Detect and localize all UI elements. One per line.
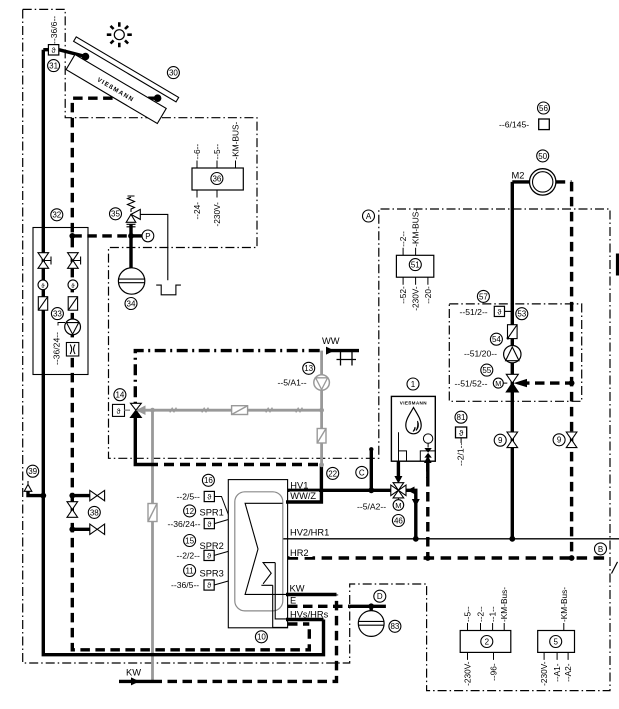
svg-text:--36/24--: --36/24-- bbox=[168, 519, 201, 529]
check valve 54 bbox=[507, 325, 517, 340]
WW outlet arrow bbox=[326, 347, 335, 355]
svg-text:-230V-: -230V- bbox=[411, 286, 421, 311]
sensor 12 SPR1 bbox=[204, 519, 228, 529]
node C stub top cap bbox=[369, 447, 373, 451]
wire gray cold water riser down to KW bbox=[151, 410, 154, 681]
funnel drain bbox=[156, 285, 181, 295]
sun symbol bbox=[107, 22, 132, 47]
air vent 39 bbox=[24, 481, 32, 491]
svg-text:P: P bbox=[145, 232, 150, 241]
wire KW bottom line arrow part bbox=[119, 680, 153, 683]
mixing valve 14 thermostatic bbox=[113, 403, 146, 417]
svg-text:10: 10 bbox=[257, 633, 266, 642]
svg-text:WW: WW bbox=[322, 336, 340, 346]
svg-text:53: 53 bbox=[517, 310, 526, 319]
node mixer to HV2/HR1 bbox=[413, 536, 419, 542]
label circle 33 bbox=[51, 308, 63, 320]
safety valve 35 bbox=[126, 196, 140, 227]
control box 57 dash-dot frame bbox=[449, 304, 581, 401]
svg-text:M: M bbox=[395, 501, 401, 510]
wire M2 return dashed riser bbox=[556, 182, 572, 558]
svg-text:50: 50 bbox=[538, 152, 547, 161]
svg-text:14: 14 bbox=[115, 391, 124, 400]
node boiler return to HR2 bbox=[425, 555, 431, 561]
svg-text:11: 11 bbox=[185, 566, 194, 575]
svg-text:--36/5--: --36/5-- bbox=[171, 580, 199, 590]
thermometer right bbox=[68, 280, 78, 290]
label circle 36 bbox=[211, 173, 223, 185]
wire HRs dashed tank stub bbox=[288, 622, 309, 625]
label HR2 bbox=[290, 548, 313, 558]
label circle 10 bbox=[255, 631, 267, 643]
svg-text:38: 38 bbox=[90, 508, 99, 517]
wire mixer 46 outlet to HV2/HR1 bbox=[406, 490, 416, 539]
mixer 46 three-way bbox=[391, 483, 415, 511]
flow meter (solar station) bbox=[66, 343, 78, 357]
svg-text:D: D bbox=[377, 592, 383, 601]
gray check valve on WW/Z riser bbox=[317, 429, 326, 444]
svg-text:-KM-Bus-: -KM-Bus- bbox=[559, 587, 569, 622]
thermometer left bbox=[38, 280, 48, 290]
node gray riser end bbox=[319, 462, 324, 467]
label circle 15 bbox=[184, 535, 196, 547]
label circle B bbox=[595, 543, 607, 555]
label WW/Z bbox=[290, 491, 320, 501]
valve 9 return bbox=[566, 432, 577, 448]
sensor 56 outdoor bbox=[539, 119, 550, 130]
svg-text:15: 15 bbox=[185, 536, 194, 545]
wire E/D solid segment with vessel 83 tap bbox=[350, 605, 386, 608]
wire KW tank stub bbox=[286, 593, 337, 596]
controller box 51 bbox=[396, 209, 433, 311]
label circle 83 bbox=[389, 620, 401, 632]
svg-text:--2/5--: --2/5-- bbox=[177, 491, 201, 501]
label circle 57 bbox=[477, 290, 489, 302]
label circle 14 bbox=[114, 389, 126, 401]
label circle 11 bbox=[184, 565, 196, 577]
svg-text:5: 5 bbox=[553, 637, 558, 646]
svg-text:--2/2--: --2/2-- bbox=[177, 550, 201, 560]
label circle 50 bbox=[537, 150, 549, 162]
svg-text:39: 39 bbox=[28, 467, 37, 476]
valve shutoff left (solar station) bbox=[38, 253, 51, 269]
wire boiler flow arrow shaft bbox=[397, 461, 400, 477]
label circle 34 bbox=[125, 298, 137, 310]
svg-text:55: 55 bbox=[482, 366, 491, 375]
wire WW/Z riser black part bbox=[286, 466, 321, 503]
wire M2 supply riser bbox=[512, 182, 530, 539]
boiler 1 bbox=[391, 396, 435, 461]
svg-text:--36/6--: --36/6-- bbox=[49, 16, 59, 44]
svg-text:--6/145-: --6/145- bbox=[499, 120, 529, 130]
label circle 53 bbox=[516, 308, 528, 320]
node junction safety group bbox=[128, 233, 134, 239]
svg-text:--51/20--: --51/20-- bbox=[464, 349, 497, 359]
mixer outlet arrow down bbox=[412, 499, 420, 507]
gray pipe break marks bbox=[170, 408, 303, 413]
solar station box 32 bbox=[33, 228, 88, 375]
wire WW circulation loop thick dash-dot bbox=[135, 351, 319, 403]
svg-text:--36/24--: --36/24-- bbox=[52, 332, 62, 365]
node gray junction bbox=[150, 408, 155, 413]
heating circuit M2 bbox=[530, 169, 556, 195]
valve 38 shut-off on return bbox=[67, 502, 78, 518]
svg-text:56: 56 bbox=[539, 104, 548, 113]
tank electric heater bbox=[261, 563, 275, 586]
svg-text:A: A bbox=[366, 212, 372, 221]
node gray WWZ junction bbox=[319, 408, 324, 413]
tap comb symbol bbox=[337, 351, 357, 366]
label circle C bbox=[356, 466, 368, 478]
wire HV1 boiler flow line bbox=[288, 489, 391, 492]
label circle 55 bbox=[481, 364, 493, 376]
drain valve bottom bbox=[90, 524, 105, 534]
svg-text:1: 1 bbox=[411, 380, 416, 389]
label circle A bbox=[363, 210, 375, 222]
node drain bottom junction bbox=[69, 526, 75, 532]
svg-text:M: M bbox=[495, 379, 501, 388]
svg-text:B: B bbox=[598, 545, 603, 554]
svg-text:51: 51 bbox=[411, 261, 420, 270]
label circle 1 bbox=[407, 378, 419, 390]
wire mixed water outlet solid below valve 14 bbox=[135, 416, 148, 465]
drain valve top bbox=[90, 490, 105, 500]
label circle 39 bbox=[27, 465, 39, 477]
svg-text:HR2: HR2 bbox=[290, 548, 309, 558]
svg-text:--52-: --52- bbox=[398, 286, 408, 304]
svg-text:--51/2--: --51/2-- bbox=[460, 307, 488, 317]
sensor 53 supply bbox=[494, 306, 504, 316]
svg-text:32: 32 bbox=[52, 211, 61, 220]
svg-text:SPR2: SPR2 bbox=[200, 541, 224, 551]
svg-text:KW: KW bbox=[290, 584, 305, 594]
expansion vessel 83 bbox=[358, 611, 384, 637]
label circle 16 bbox=[202, 474, 214, 486]
wire boiler return dashed riser bbox=[426, 462, 429, 558]
wire KW bottom dashed line bbox=[153, 595, 337, 682]
label circle 12 bbox=[184, 505, 196, 517]
svg-text:12: 12 bbox=[185, 507, 194, 516]
svg-text:9: 9 bbox=[498, 436, 503, 445]
label circle 9 right bbox=[553, 434, 565, 446]
node vent junction bbox=[40, 493, 46, 499]
wire gray horizontal to mixing valve 14 bbox=[137, 409, 322, 412]
svg-text:HV1: HV1 bbox=[290, 480, 308, 490]
svg-text:--51/52--: --51/52-- bbox=[455, 378, 488, 388]
svg-text:13: 13 bbox=[304, 364, 313, 373]
wire HR2 dashed line bbox=[288, 556, 608, 559]
svg-text:M2: M2 bbox=[512, 171, 525, 181]
sensor 16 bbox=[204, 491, 228, 514]
svg-text:--6--: --6-- bbox=[192, 144, 202, 160]
controller box 5 bbox=[538, 587, 575, 686]
svg-text:E: E bbox=[290, 596, 296, 606]
wire edge connection mark right bbox=[616, 254, 619, 276]
pump 13 circulation gray bbox=[314, 375, 330, 391]
svg-text:-230V-: -230V- bbox=[539, 661, 549, 686]
wire mixed water dashed line to WW/Z riser bbox=[148, 463, 320, 466]
svg-text:SPR1: SPR1 bbox=[200, 508, 224, 518]
wire mixer 55 bypass dashed branch bbox=[520, 381, 572, 384]
label circle 31 bbox=[48, 60, 60, 72]
svg-text:35: 35 bbox=[111, 210, 120, 219]
svg-text:--1--: --1-- bbox=[488, 606, 498, 622]
wire air vent stub 39 bbox=[28, 487, 43, 496]
svg-text:46: 46 bbox=[394, 516, 403, 525]
svg-text:34: 34 bbox=[127, 299, 136, 308]
label circle 32 bbox=[51, 209, 63, 221]
label circle 9 left bbox=[494, 434, 506, 446]
svg-text:57: 57 bbox=[479, 292, 488, 301]
svg-text:C: C bbox=[359, 468, 365, 477]
label circle 13 bbox=[303, 362, 315, 374]
electrical boxes bbox=[192, 121, 575, 685]
sensor 11 SPR3 bbox=[204, 580, 228, 590]
node collector return connection bbox=[154, 94, 162, 102]
gray check valve on mixed line bbox=[232, 406, 248, 415]
pump 51/20 heating bbox=[504, 346, 521, 363]
svg-text:54: 54 bbox=[492, 335, 501, 344]
pump 33 solar circulation bbox=[65, 319, 81, 335]
wire thin discharge line valve 35 to funnel bbox=[140, 214, 168, 280]
node HV1/C junction bbox=[368, 487, 374, 493]
wire stub to gauge P bbox=[131, 234, 142, 237]
svg-text:--A1-: --A1- bbox=[552, 663, 562, 682]
svg-text:22: 22 bbox=[328, 469, 337, 478]
node M2 supply to HV2/HR1 bbox=[509, 536, 515, 542]
wire gray tap riser: pump 13 down to WW/Z junction bbox=[320, 390, 323, 465]
label circle 81 bbox=[455, 411, 467, 423]
svg-text:-KM-BUS-: -KM-BUS- bbox=[231, 121, 241, 159]
label circle 54 bbox=[490, 333, 502, 345]
sensor 81 flue bbox=[456, 427, 467, 443]
wire HV2/HR1 line bbox=[283, 538, 619, 540]
svg-text:31: 31 bbox=[49, 62, 58, 71]
gray check valve on cold riser bbox=[148, 504, 157, 522]
wire gray WW up from pump to outlet bbox=[320, 351, 323, 375]
label circle 35 bbox=[110, 208, 122, 220]
svg-text:-230V-: -230V- bbox=[212, 202, 222, 227]
svg-text:33: 33 bbox=[53, 310, 62, 319]
svg-text:HV2/HR1: HV2/HR1 bbox=[290, 528, 329, 538]
wire E line dashed from tank bbox=[288, 605, 350, 608]
svg-text:--96-: --96- bbox=[489, 663, 499, 681]
svg-text:83: 83 bbox=[390, 622, 399, 631]
svg-text:KW: KW bbox=[126, 668, 141, 678]
node collector flow connection bbox=[82, 53, 90, 61]
boiler flow arrow head bbox=[394, 476, 402, 484]
wire HR2 continuation slash bbox=[612, 562, 618, 574]
wire drain valve stubs 38 bbox=[72, 496, 92, 530]
expansion vessel 34 bbox=[118, 268, 144, 294]
svg-text:ϑ: ϑ bbox=[117, 409, 121, 416]
wire solar flow to collector (slanted) bbox=[59, 50, 86, 57]
valve 9 supply bbox=[507, 432, 518, 448]
svg-text:--20-: --20- bbox=[423, 286, 433, 304]
tank heater tails bbox=[273, 563, 287, 628]
sensor 15 SPR2 bbox=[204, 550, 228, 560]
wire vessel 83 stub bbox=[370, 606, 373, 611]
gauge P bbox=[142, 230, 154, 242]
svg-text:VIEßMANN: VIEßMANN bbox=[400, 401, 427, 406]
svg-text:81: 81 bbox=[457, 413, 466, 422]
svg-text:--24-: --24- bbox=[192, 202, 202, 220]
label circle 46 bbox=[392, 515, 404, 527]
wire sensor 53 stub bbox=[504, 310, 512, 312]
svg-text:WW/Z: WW/Z bbox=[290, 491, 316, 501]
svg-text:--A2-: --A2- bbox=[563, 663, 573, 682]
node drain top junction bbox=[69, 493, 75, 499]
svg-text:--2/1--: --2/1-- bbox=[455, 442, 465, 466]
check valve left bbox=[38, 297, 47, 311]
svg-text:-230V-: -230V- bbox=[463, 661, 473, 686]
svg-text:16: 16 bbox=[204, 476, 213, 485]
KW arrow bbox=[131, 677, 140, 685]
svg-text:9: 9 bbox=[557, 436, 562, 445]
controller box 36 bbox=[192, 121, 243, 226]
tank vessel outline bbox=[235, 492, 283, 611]
label circle 51 bbox=[409, 259, 421, 271]
svg-text:--5--: --5-- bbox=[463, 606, 473, 622]
label circle 5 bbox=[550, 636, 562, 648]
svg-text:SPR3: SPR3 bbox=[200, 569, 224, 579]
valve shutoff right (solar station) bbox=[68, 253, 81, 269]
wire HVs solid tank stub bbox=[286, 618, 324, 621]
sensor 31 collector temperature bbox=[48, 45, 58, 55]
wire solar return dashed from collector bbox=[72, 98, 309, 650]
svg-text:ϑ: ϑ bbox=[459, 429, 464, 438]
wire pressure branch dashed to safety group bbox=[72, 234, 131, 237]
svg-text:-KM-Bus-: -KM-Bus- bbox=[499, 587, 509, 622]
svg-text:36: 36 bbox=[212, 174, 221, 183]
label circle 56 bbox=[538, 102, 550, 114]
check valve right bbox=[68, 297, 77, 311]
svg-text:HVs/HRs: HVs/HRs bbox=[290, 609, 329, 619]
node solar station top junction bbox=[69, 233, 75, 239]
svg-text:--5--: --5-- bbox=[212, 144, 222, 160]
label circle D bbox=[374, 590, 386, 602]
wire safety valve riser bbox=[129, 225, 132, 268]
wire solar flow line from sensor 31 down left side bbox=[43, 50, 323, 655]
wire WW outlet arrow line bbox=[327, 349, 359, 352]
svg-text:--2--: --2-- bbox=[476, 606, 486, 622]
node C stub bbox=[370, 450, 373, 491]
svg-text:-KM-BUS-: -KM-BUS- bbox=[411, 209, 421, 247]
boiler return arrow bbox=[426, 463, 429, 479]
label circle 30 bbox=[167, 67, 179, 79]
label circle 22 bbox=[327, 467, 339, 479]
svg-text:--2--: --2-- bbox=[398, 231, 408, 247]
label circle 38 bbox=[88, 506, 100, 518]
label hook 36/24 bbox=[58, 323, 65, 326]
storage tank box 10 bbox=[228, 480, 287, 628]
node D junction bbox=[368, 603, 374, 609]
label circle 2 bbox=[481, 636, 493, 648]
mixer 55 three-way bbox=[493, 374, 527, 392]
tank stratifier zigzag bbox=[245, 503, 286, 594]
svg-text:--5/A2--: --5/A2-- bbox=[357, 502, 386, 512]
solar collector 30 bbox=[59, 37, 178, 126]
svg-text:2: 2 bbox=[485, 637, 490, 646]
node M2 return to HR2 bbox=[569, 555, 575, 561]
svg-text:30: 30 bbox=[169, 69, 178, 78]
svg-text:--5/A1--: --5/A1-- bbox=[278, 377, 307, 387]
controller box 2 bbox=[460, 587, 511, 686]
node bypass branch bbox=[569, 380, 575, 386]
